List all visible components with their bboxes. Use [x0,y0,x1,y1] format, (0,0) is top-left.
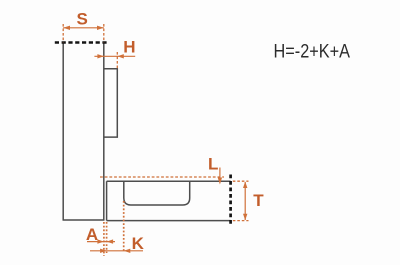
svg-text:L: L [208,155,218,174]
svg-text:H=-2+K+A: H=-2+K+A [274,41,351,62]
svg-text:S: S [77,10,88,29]
svg-text:K: K [132,234,145,253]
svg-text:H: H [123,38,135,57]
svg-text:A: A [86,225,98,244]
svg-text:T: T [253,191,264,210]
